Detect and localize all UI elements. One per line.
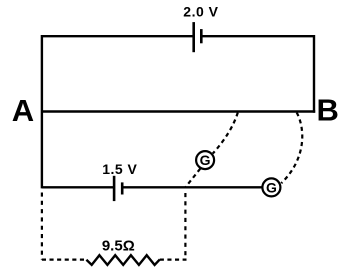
svg-text:G: G xyxy=(200,152,211,168)
wire dashed resistor R1 to right riser xyxy=(160,259,187,261)
wire dashed junction down to resistor loop (right riser) xyxy=(184,193,186,260)
label 9.5 ohm xyxy=(102,237,135,254)
wire dashed galvanometer G1 to 1.5V branch junction xyxy=(185,169,200,188)
galvanometer G1 xyxy=(196,151,214,169)
label 2.0 V xyxy=(183,3,218,19)
battery B2 1.5 V xyxy=(114,176,122,201)
svg-text:A: A xyxy=(12,93,34,128)
wire dashed node B to galvanometer G2 xyxy=(281,113,302,184)
node A label xyxy=(12,93,34,128)
svg-text:B: B xyxy=(317,92,339,127)
wire dashed left riser down to resistor loop xyxy=(41,193,43,260)
node B label xyxy=(317,92,339,127)
wire top loop left: battery B1 to top-left corner down to 1.5V branch xyxy=(42,36,194,188)
wire A to B (potentiometer wire) xyxy=(42,110,315,112)
svg-text:9.5Ω: 9.5Ω xyxy=(102,237,135,254)
wire battery B2 to galvanometer G2 xyxy=(122,186,262,188)
svg-text:2.0 V: 2.0 V xyxy=(183,3,218,19)
label 1.5 V xyxy=(102,161,137,177)
wire dashed bottom left to resistor R1 xyxy=(42,259,87,261)
wire dashed jockey tap on AB to galvanometer G1 xyxy=(213,113,238,154)
resistor R1 zigzag xyxy=(86,255,159,265)
wire top loop right: battery B1 to top-right corner down to node B xyxy=(201,36,314,113)
svg-text:G: G xyxy=(266,180,277,196)
wire node A branch to battery B2 xyxy=(42,186,114,188)
battery B1 2.0 V xyxy=(194,22,202,52)
svg-text:1.5 V: 1.5 V xyxy=(102,161,137,177)
galvanometer G2 xyxy=(262,178,280,196)
